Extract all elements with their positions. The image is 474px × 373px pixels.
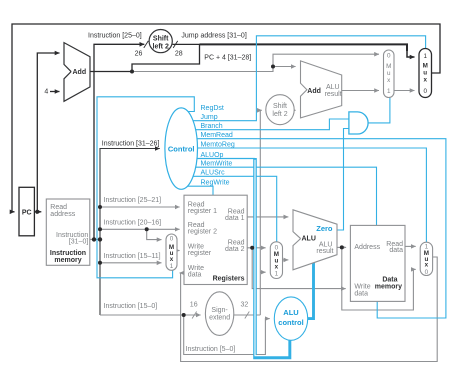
svg-text:left 2: left 2 [272,111,287,118]
svg-text:M: M [423,63,428,70]
svg-text:ALU: ALU [283,308,298,317]
svg-text:Instruction [5–0]: Instruction [5–0] [186,346,236,353]
svg-text:[31–0]: [31–0] [69,238,89,245]
svg-text:4: 4 [44,89,48,96]
svg-text:1: 1 [275,270,279,277]
svg-text:Sign-: Sign- [211,307,228,314]
svg-text:data: data [354,290,368,297]
svg-text:register 2: register 2 [188,229,217,236]
svg-text:Jump address [31–0]: Jump address [31–0] [181,32,246,39]
svg-text:data: data [188,272,202,279]
svg-text:address: address [50,211,75,218]
svg-text:MemRead: MemRead [201,132,233,139]
svg-text:MemtoReg: MemtoReg [201,141,235,148]
svg-text:x: x [425,262,429,269]
svg-text:Instruction [25–0]: Instruction [25–0] [88,32,142,39]
svg-text:1: 1 [170,263,174,270]
svg-text:Zero: Zero [316,224,333,233]
svg-text:Instruction [31–26]: Instruction [31–26] [102,140,160,147]
svg-text:Shift: Shift [153,35,169,42]
svg-text:register: register [188,250,212,257]
svg-text:Control: Control [168,144,195,153]
svg-text:26: 26 [135,51,143,58]
svg-text:32: 32 [241,302,249,309]
svg-text:Shift: Shift [273,103,287,110]
svg-text:0: 0 [170,236,174,243]
svg-text:extend: extend [209,315,230,322]
svg-text:x: x [423,77,427,84]
svg-text:memory: memory [375,284,402,291]
svg-text:u: u [387,70,391,77]
svg-text:ALU: ALU [302,236,316,243]
svg-text:16: 16 [190,302,198,309]
svg-text:control: control [278,318,303,327]
svg-text:Address: Address [354,244,380,251]
svg-text:u: u [423,70,427,77]
svg-text:0: 0 [425,269,429,276]
svg-text:ALUSrc: ALUSrc [201,170,226,177]
svg-text:RegDst: RegDst [201,105,224,112]
svg-text:M: M [386,63,391,70]
svg-text:Add: Add [307,88,321,95]
svg-text:Instruction [15–11]: Instruction [15–11] [104,253,161,260]
svg-text:x: x [170,256,174,263]
svg-text:PC + 4 [31–28]: PC + 4 [31–28] [204,55,251,62]
svg-text:Read: Read [50,204,67,211]
svg-text:RegWrite: RegWrite [201,180,230,187]
svg-text:Instruction [20–16]: Instruction [20–16] [104,219,162,226]
svg-text:0: 0 [423,88,427,95]
svg-text:data: data [389,247,403,254]
svg-text:Registers: Registers [213,276,245,283]
svg-text:Instruction [15–0]: Instruction [15–0] [104,303,158,310]
svg-text:Add: Add [73,69,87,76]
svg-text:left 2: left 2 [153,43,169,50]
svg-text:register 1: register 1 [188,208,217,215]
svg-text:result: result [316,248,333,255]
svg-text:result: result [325,91,342,98]
svg-text:0: 0 [387,53,391,60]
svg-text:memory: memory [54,257,81,264]
svg-text:Jump: Jump [201,114,218,121]
svg-text:data 1: data 1 [225,215,245,222]
svg-text:1: 1 [423,53,427,60]
svg-text:Instruction [25–21]: Instruction [25–21] [104,197,162,204]
svg-text:Branch: Branch [201,123,223,130]
svg-text:1: 1 [387,88,391,95]
svg-text:ALUOp: ALUOp [201,152,224,159]
svg-text:data 2: data 2 [225,246,245,253]
svg-text:28: 28 [175,51,183,58]
svg-text:PC: PC [22,209,32,216]
svg-text:MemWrite: MemWrite [201,161,233,168]
svg-text:x: x [275,263,279,270]
